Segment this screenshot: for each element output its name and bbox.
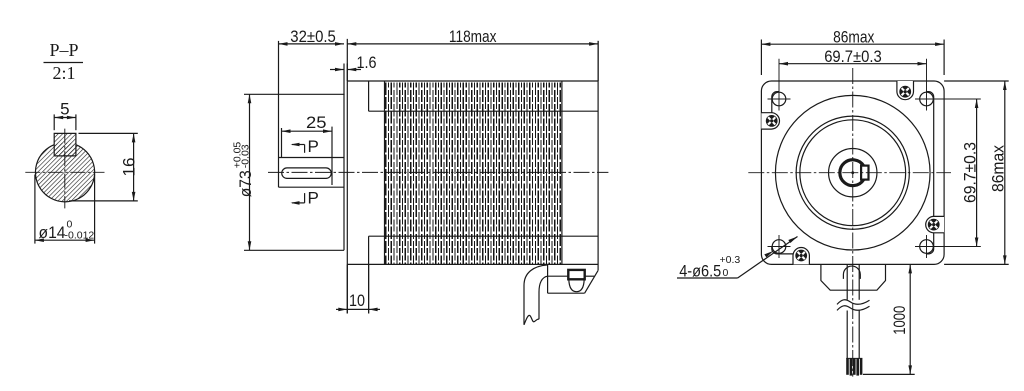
centerline vertical (64, 129, 66, 209)
svg-text:32±0.5: 32±0.5 (290, 27, 336, 46)
pilot boss face (244, 94, 344, 250)
keyway slot (side) (282, 127, 332, 185)
pilot circles (796, 116, 909, 229)
section arrow P bottom (291, 189, 319, 208)
shaft (279, 158, 344, 188)
shaft circle (bold) (840, 160, 864, 186)
connector plug barrel (569, 279, 584, 291)
dimension Ø73 +0.05/-0.03 (231, 94, 255, 250)
screw TR (899, 86, 911, 98)
cable break symbol (837, 300, 870, 311)
key cross-section (54, 133, 76, 156)
mounting hole BR (915, 235, 981, 258)
svg-text:-0.03: -0.03 (239, 144, 251, 168)
centerline horizontal (front view) (748, 172, 951, 174)
svg-text:86max: 86max (833, 28, 875, 47)
svg-text:16: 16 (119, 158, 138, 177)
dimension 86max right (944, 81, 1009, 264)
svg-text:10: 10 (349, 291, 365, 310)
svg-text:2:1: 2:1 (52, 63, 75, 83)
svg-text:P: P (308, 189, 319, 208)
shaft keyway rect (861, 166, 868, 180)
stator stack (laminated) (385, 81, 562, 264)
cable bushing arch (843, 266, 860, 279)
center dot (851, 171, 854, 174)
bearing boss circle (829, 149, 877, 197)
bottom connector (front) (821, 264, 886, 290)
svg-text:5: 5 (60, 100, 69, 119)
outer square (761, 81, 944, 264)
dimension 25 (keyway) (282, 113, 333, 158)
label 4-Ø6.5 +0.3/0 with leader (677, 237, 798, 281)
mounting hole TR (915, 59, 981, 111)
svg-text:86max: 86max (989, 145, 1008, 192)
screw notch BR (926, 216, 944, 232)
motor flange (side) (347, 39, 368, 314)
section label P-P 2:1 (49, 40, 78, 83)
svg-text:P: P (308, 137, 319, 156)
screw notch BL (793, 247, 809, 264)
dimension 1.6 (boss height) (330, 53, 377, 95)
dimension 1000 (lead length) (863, 264, 915, 374)
screw notch TL (761, 113, 779, 129)
dimension Ø14 0/-0.012 (35, 175, 95, 244)
end bell corner bracket BR (927, 233, 934, 254)
svg-text:1000: 1000 (890, 306, 909, 335)
svg-text:ø14: ø14 (39, 223, 66, 242)
motor body outline (347, 81, 598, 264)
screw TL (766, 115, 778, 127)
end bell corner bracket BL (772, 247, 793, 254)
screw BL (795, 250, 807, 262)
svg-text:ø73: ø73 (236, 170, 255, 197)
end bell corner bracket TL (772, 92, 779, 113)
svg-text:-0.012: -0.012 (65, 230, 95, 242)
mounting hole TL (768, 59, 791, 111)
svg-text:0: 0 (723, 267, 729, 279)
mounting hole BL (768, 235, 791, 258)
centerline vertical (front view) (852, 68, 854, 377)
stripped wire end (848, 358, 862, 375)
svg-text:P–P: P–P (49, 40, 78, 60)
section arrow P top (291, 137, 319, 156)
svg-text:4-ø6.5: 4-ø6.5 (679, 261, 721, 280)
rear end cap (548, 41, 599, 293)
dimension 10 (flange thickness) (336, 264, 380, 313)
end bell edge right (TR corner down to BR notch) (926, 92, 934, 217)
axis centerline (268, 171, 608, 173)
connector socket (568, 270, 584, 279)
pilot boss circle (775, 95, 930, 250)
dimension 69.7±0.3 top (779, 47, 927, 66)
svg-text:25: 25 (306, 113, 327, 132)
screw notch TR (897, 81, 914, 100)
screw BR (928, 219, 940, 231)
dimension 118max (347, 27, 598, 81)
lead wire (side) (524, 265, 548, 325)
svg-text:1.6: 1.6 (357, 53, 377, 72)
dimension 16 (height) (69, 133, 138, 201)
dimension 69.7±0.3 right (960, 99, 979, 247)
shaft section hatched circle (35, 133, 94, 202)
centerline horizontal (25, 171, 104, 173)
dimension 5 (key width) (54, 100, 76, 131)
svg-text:69.7±0.3: 69.7±0.3 (960, 142, 979, 203)
svg-text:118max: 118max (449, 27, 497, 46)
svg-text:+0.3: +0.3 (720, 254, 741, 266)
cable (front) (847, 264, 859, 358)
svg-text:69.7±0.3: 69.7±0.3 (824, 47, 882, 66)
dimension 32±0.5 (279, 27, 345, 158)
dimension 86max top (761, 28, 944, 76)
fraction line (44, 62, 84, 64)
